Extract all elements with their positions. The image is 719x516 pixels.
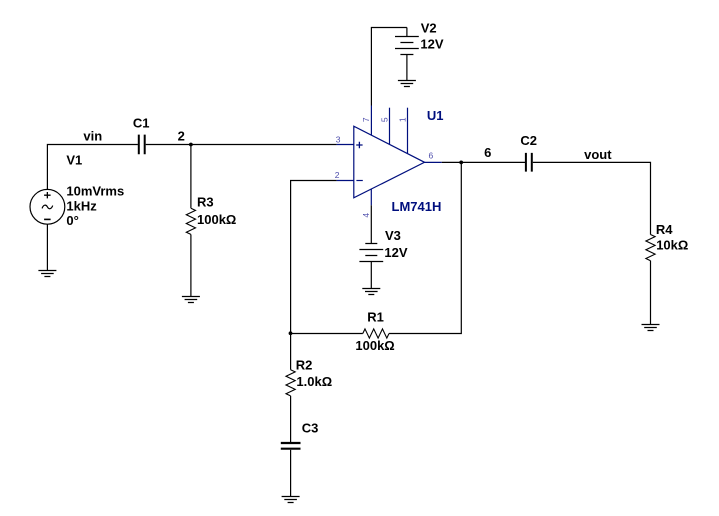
svg-text:U1: U1	[427, 108, 444, 123]
resistor R4	[646, 235, 655, 261]
svg-text:R3: R3	[197, 195, 214, 210]
svg-text:100kΩ: 100kΩ	[197, 212, 236, 227]
wire vin net: V1 top to C1 left plate	[47, 145, 138, 190]
wire op-amp output to C2	[442, 161, 525, 163]
wire R4 bottom to ground	[650, 261, 652, 325]
C1 label	[133, 115, 150, 130]
R3 reference label	[197, 195, 214, 210]
wire feedback node to R1 left	[291, 333, 363, 335]
svg-text:12V: 12V	[420, 36, 443, 51]
svg-text:6: 6	[484, 145, 491, 160]
svg-text:vin: vin	[83, 129, 102, 144]
svg-text:1kHz: 1kHz	[66, 199, 97, 214]
U1 label	[427, 108, 444, 123]
resistor R1	[363, 329, 389, 338]
svg-text:6: 6	[429, 150, 434, 160]
V3 value label 12V	[384, 245, 407, 260]
svg-text:LM741H: LM741H	[392, 199, 442, 214]
svg-text:V3: V3	[385, 228, 401, 243]
V1 value label 10mVrms	[66, 184, 124, 199]
AC voltage source V1	[30, 189, 65, 224]
op-amp pin 5 stub	[389, 108, 391, 145]
C2 label	[520, 133, 537, 148]
resistor R2	[286, 370, 295, 396]
svg-text:vout: vout	[584, 147, 612, 162]
R4 value label 10k ohm	[656, 238, 688, 253]
op-amp pin 7 stub	[370, 106, 372, 136]
svg-text:0°: 0°	[66, 213, 78, 228]
ground (V1)	[38, 271, 56, 277]
capacitor C3	[281, 443, 301, 449]
LM741H label	[392, 199, 442, 214]
op-amp pin 6 stub	[425, 161, 442, 163]
R2 value label 1.0k ohm	[296, 374, 332, 389]
R1 value label 100k ohm	[355, 338, 394, 353]
V1 value label 0 degrees	[66, 213, 78, 228]
op-amp U1 triangle	[354, 126, 425, 198]
pin number 3	[336, 134, 341, 144]
pin number 4	[361, 213, 371, 218]
wire C1 right plate to op-amp pin 3	[146, 144, 337, 146]
pin number 6	[429, 150, 434, 160]
svg-text:7: 7	[361, 117, 371, 122]
capacitor C1	[139, 135, 145, 155]
pin number 2	[335, 170, 340, 180]
svg-text:C3: C3	[302, 421, 319, 436]
V1 value label 1kHz	[66, 199, 97, 214]
svg-text:C2: C2	[520, 133, 537, 148]
svg-text:1.0kΩ: 1.0kΩ	[296, 374, 332, 389]
R2 reference label	[296, 358, 313, 373]
wire pin 4 to V3	[370, 205, 372, 243]
svg-text:4: 4	[361, 213, 371, 218]
ground (R4)	[642, 325, 660, 331]
svg-text:10kΩ: 10kΩ	[656, 238, 688, 253]
svg-text:10mVrms: 10mVrms	[66, 184, 124, 199]
svg-text:V2: V2	[421, 21, 437, 36]
wire op-amp pin 2 to feedback node	[291, 181, 337, 334]
V1 reference label	[66, 152, 82, 167]
ground (V2)	[398, 81, 416, 87]
wire R2 bottom to C3	[290, 396, 292, 442]
wire V1 bottom to ground	[46, 224, 48, 270]
svg-text:R4: R4	[656, 222, 673, 237]
battery V2	[395, 28, 419, 81]
svg-text:R2: R2	[296, 358, 313, 373]
wire node 2 down to R3	[190, 145, 192, 209]
pin number 5	[379, 117, 389, 122]
V2 value label 12V	[420, 36, 443, 51]
svg-text:R1: R1	[367, 309, 384, 324]
svg-text:C1: C1	[133, 115, 150, 130]
capacitor C2	[526, 153, 532, 172]
node vin label	[83, 129, 102, 144]
pin number 1	[397, 117, 407, 122]
node 2 junction	[189, 143, 193, 147]
resistor R3	[186, 208, 195, 234]
node 6 label	[484, 145, 491, 160]
op-amp pin 1 stub	[407, 108, 409, 154]
pin number 7	[361, 117, 371, 122]
R1 reference label	[367, 309, 384, 324]
C3 label	[302, 421, 319, 436]
wire R1 right to output node	[389, 163, 461, 334]
wire C2 to R4 top corner	[533, 162, 651, 234]
wire R3 bottom to ground	[190, 234, 192, 296]
svg-text:100kΩ: 100kΩ	[355, 338, 394, 353]
wire feedback node down to R2	[290, 334, 292, 370]
R4 reference label	[656, 222, 673, 237]
V3 reference label	[385, 228, 401, 243]
svg-text:2: 2	[335, 170, 340, 180]
node vout label	[584, 147, 612, 162]
feedback node junction	[289, 331, 293, 335]
svg-text:3: 3	[336, 134, 341, 144]
ground (V3)	[362, 289, 380, 295]
svg-text:V1: V1	[66, 152, 82, 167]
op-amp pin 2 stub	[337, 180, 354, 182]
R3 value label 100k ohm	[197, 212, 236, 227]
svg-text:1: 1	[397, 117, 407, 122]
svg-text:5: 5	[379, 117, 389, 122]
wire C3 bottom to ground	[290, 450, 292, 497]
svg-text:12V: 12V	[384, 245, 407, 260]
ground (R3)	[182, 297, 200, 303]
V2 reference label	[421, 21, 437, 36]
svg-text:2: 2	[178, 129, 185, 144]
op-amp pin 4 stub	[370, 189, 372, 206]
op-amp pin 3 stub	[337, 144, 354, 146]
node 2 label	[178, 129, 185, 144]
battery V3	[359, 244, 383, 289]
ground (C3)	[282, 497, 300, 503]
output node junction	[459, 161, 463, 165]
wire V2 top rail to pin 7	[371, 28, 407, 106]
